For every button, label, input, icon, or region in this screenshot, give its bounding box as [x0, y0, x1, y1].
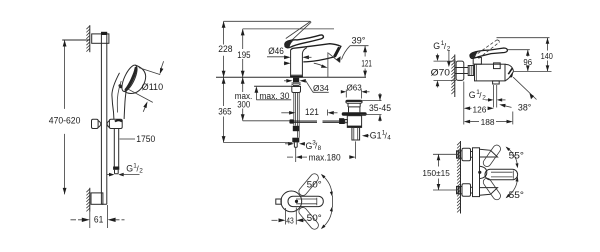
base stub left	[276, 199, 282, 204]
arc 55 bottom	[506, 177, 524, 201]
svg-text:365: 365	[218, 107, 232, 117]
svg-text:Ø110: Ø110	[142, 82, 164, 92]
dimension Ø63	[341, 82, 370, 98]
arc 50 top	[307, 174, 333, 197]
svg-text:126: 126	[473, 104, 487, 114]
arc 55 top	[506, 147, 524, 169]
rail cap	[101, 32, 107, 35]
body slab	[473, 148, 498, 197]
dimension Ø70	[431, 54, 457, 88]
wall bottom	[86, 188, 89, 212]
svg-text:G1: G1	[370, 131, 382, 141]
hose nut 2 (G3/8)	[292, 138, 299, 143]
rail	[101, 35, 106, 205]
dimension G3/8	[285, 139, 322, 151]
svg-text:1750: 1750	[136, 134, 155, 144]
extension line lever raised top	[224, 20, 311, 22]
svg-text:35-45: 35-45	[369, 103, 391, 113]
svg-text:228: 228	[218, 44, 232, 54]
wall	[457, 141, 460, 214]
dimension max.30	[254, 86, 292, 101]
hand shower handle	[112, 73, 126, 119]
wall	[451, 55, 454, 98]
svg-text:8: 8	[318, 145, 322, 152]
pop-up waste	[339, 100, 367, 140]
svg-text:188: 188	[481, 117, 495, 127]
dimension 188	[464, 112, 513, 127]
arc 50 bottom	[307, 206, 333, 229]
bottom union pipe	[471, 187, 473, 193]
extension line 365 bottom	[224, 142, 292, 144]
label G1 1/4	[362, 130, 391, 142]
svg-text:300: 300	[237, 99, 250, 109]
label G1/2 (outlet)	[469, 89, 506, 102]
svg-text:Ø34: Ø34	[313, 83, 329, 93]
bottom union hex	[457, 186, 463, 193]
svg-text:Ø46: Ø46	[268, 46, 284, 56]
dimension 126	[464, 82, 494, 125]
aerator	[334, 47, 339, 56]
extension line raised lever top	[497, 37, 550, 39]
handle plan	[485, 169, 518, 180]
hand shower head	[118, 63, 146, 93]
svg-text:38°: 38°	[518, 102, 531, 112]
dimension 121 upper	[361, 46, 371, 77]
cartridge dome	[478, 166, 487, 178]
top union hex	[457, 151, 463, 158]
pivot dot	[295, 200, 298, 203]
lever handle	[470, 48, 507, 58]
hose	[114, 129, 118, 167]
deck line	[216, 76, 366, 78]
phantom handle +55	[482, 144, 502, 168]
top bracket	[92, 34, 109, 43]
svg-text:96: 96	[523, 57, 532, 67]
svg-text:121: 121	[305, 107, 319, 117]
handle plan view	[288, 196, 323, 206]
phantom raised lever	[286, 22, 311, 40]
svg-text:Ø63: Ø63	[347, 82, 363, 92]
svg-text:140: 140	[541, 51, 554, 61]
dimension line 228/365	[218, 21, 232, 142]
extension line lever top	[243, 28, 334, 30]
top union pipe	[471, 152, 473, 158]
top union escutcheon	[462, 148, 471, 161]
phantom raised lever (dashed)	[474, 40, 500, 59]
dimension 121 lower	[281, 107, 337, 117]
dimension Ø34	[284, 79, 329, 93]
faucet body and spout	[290, 44, 341, 78]
dimension 150±15	[422, 154, 457, 190]
dimension 35-45	[360, 93, 391, 122]
bottom bracket	[91, 193, 103, 204]
label G1/2 (hose)	[107, 162, 144, 176]
dimension max.180	[287, 141, 356, 162]
spout	[505, 64, 513, 81]
mixer body	[475, 63, 506, 81]
shower outlet stub	[493, 81, 500, 84]
lever handle	[285, 35, 324, 48]
svg-text:39°: 39°	[352, 36, 366, 46]
svg-text:55°: 55°	[509, 151, 524, 161]
hose nut G1/2	[113, 167, 119, 170]
hose nut 1	[293, 126, 300, 131]
pop-up rod linkage	[289, 119, 345, 124]
dimension 470-620	[49, 40, 90, 194]
cartridge neck	[473, 58, 481, 65]
outlet axis line	[327, 52, 329, 77]
dimension 96	[523, 50, 532, 72]
svg-text:2: 2	[139, 168, 143, 175]
hose end tube	[115, 170, 119, 174]
extension line spout tip top	[514, 70, 552, 72]
dimension 43	[272, 208, 311, 226]
svg-text:4: 4	[387, 135, 391, 142]
svg-text:50°: 50°	[307, 179, 322, 189]
dimension 61	[71, 205, 125, 228]
outlet flow arrow	[314, 63, 328, 67]
svg-text:195: 195	[237, 50, 250, 60]
dimension Ø46	[267, 46, 312, 65]
extension line lever top	[508, 49, 530, 51]
phantom handle +50	[297, 172, 320, 197]
bottom union escutcheon	[462, 184, 471, 197]
handle tip reference line	[332, 196, 334, 208]
dimension 140	[541, 38, 554, 72]
label G1/2 (top)	[433, 40, 451, 67]
svg-text:121: 121	[361, 59, 371, 69]
supply hoses	[294, 93, 299, 138]
hose end tube	[294, 142, 297, 147]
outlet thread extension lines	[494, 85, 497, 108]
svg-text:G: G	[469, 90, 476, 100]
dimension line 195/max300	[235, 29, 253, 121]
holder on rail	[92, 119, 123, 128]
svg-text:43: 43	[286, 216, 294, 225]
dimension 39 deg	[329, 36, 369, 63]
svg-text:470-620: 470-620	[49, 115, 81, 125]
svg-text:55°: 55°	[509, 190, 524, 200]
svg-text:max.180: max.180	[309, 153, 341, 163]
svg-text:G: G	[126, 163, 133, 173]
wall pipe	[455, 68, 468, 74]
extension line max300 bottom	[243, 120, 290, 122]
svg-text:G: G	[433, 41, 440, 51]
dimension Ø110	[128, 61, 163, 112]
svg-text:max. 30: max. 30	[259, 91, 289, 101]
shank below deck	[292, 78, 301, 93]
svg-text:Ø70: Ø70	[431, 68, 451, 78]
label 1750	[120, 134, 156, 144]
phantom handle -55	[482, 177, 502, 201]
cartridge cap circle	[281, 191, 302, 212]
dimension 38 deg	[499, 77, 536, 112]
phantom handle -50	[297, 206, 320, 231]
wall top	[86, 25, 89, 52]
union nut	[468, 66, 473, 76]
svg-text:150±15: 150±15	[422, 168, 450, 178]
svg-text:50°: 50°	[307, 213, 322, 223]
escutcheon	[456, 61, 464, 80]
svg-text:61: 61	[94, 214, 103, 224]
